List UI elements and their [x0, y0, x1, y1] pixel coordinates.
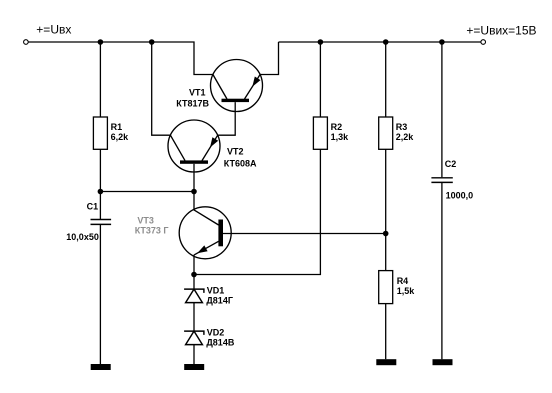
- zener diode VD2: [184, 331, 204, 345]
- wire R3 bottom: [385, 149, 387, 233]
- label R4 1,5k: [397, 276, 416, 296]
- junction top rail / VT2 collector: [149, 39, 155, 45]
- label VT2 КТ608А: [224, 147, 257, 169]
- svg-text:R2: R2: [331, 122, 343, 132]
- wire VD1 top: [193, 275, 195, 290]
- resistor R1: [93, 117, 107, 149]
- wire VT3 emitter: [193, 255, 195, 275]
- svg-text:+=Uвх: +=Uвх: [36, 23, 71, 37]
- wire R2 bottom rail: [194, 149, 320, 274]
- wire base rail: [100, 191, 194, 193]
- wire VT3 base to R3/R4: [223, 233, 386, 235]
- wire top rail right: [279, 41, 481, 43]
- svg-text:КТ608А: КТ608А: [224, 159, 257, 169]
- junction top rail / R1: [98, 39, 104, 45]
- wire VT2 base: [193, 164, 195, 192]
- resistor R4: [379, 271, 393, 304]
- svg-text:VD2: VD2: [207, 327, 225, 337]
- junction top rail / R3: [383, 39, 389, 45]
- ground C1: [91, 364, 111, 370]
- junction R3 / R4 / VT3 base: [383, 231, 389, 237]
- resistor R3: [379, 117, 393, 149]
- junction R1 / C1 / base rail: [98, 189, 104, 195]
- svg-text:2,2k: 2,2k: [396, 132, 415, 142]
- capacitor C2: [431, 178, 452, 183]
- label R1 6,2k: [111, 122, 130, 142]
- transistor VT1: [211, 60, 263, 112]
- svg-text:VT1: VT1: [189, 87, 206, 97]
- label R3 2,2k: [396, 122, 415, 142]
- svg-text:+=Uвих=15В: +=Uвих=15В: [466, 23, 536, 37]
- svg-text:C1: C1: [87, 202, 99, 212]
- transistor VT3: [179, 207, 231, 259]
- svg-text:КТ373 Г: КТ373 Г: [135, 226, 169, 236]
- label VT3 КТ373 Г: [135, 216, 169, 236]
- wire R3 top: [385, 42, 387, 117]
- junction VD1 / R2 bottom: [191, 272, 197, 278]
- wire VT1 emitter to top rail: [260, 42, 278, 75]
- ground C2: [433, 359, 453, 365]
- svg-text:Д814Г: Д814Г: [206, 296, 233, 306]
- wire C1 top: [99, 192, 101, 220]
- svg-text:Д814В: Д814В: [206, 338, 234, 348]
- zener diode VD1: [184, 289, 204, 303]
- svg-text:1000,0: 1000,0: [446, 191, 474, 201]
- svg-text:VD1: VD1: [207, 285, 225, 295]
- svg-text:R3: R3: [396, 122, 408, 132]
- svg-text:VT2: VT2: [227, 147, 244, 157]
- ground R4: [376, 359, 396, 365]
- junction VT2 base / VT3 collector: [191, 189, 197, 195]
- wire R1 top: [99, 42, 101, 117]
- label VD1 Д814Г: [206, 285, 233, 305]
- label VT1 КТ817В: [176, 87, 209, 108]
- svg-text:R4: R4: [397, 276, 409, 286]
- label VD2 Д814В: [206, 327, 234, 347]
- ground VD2: [184, 364, 204, 370]
- wire VD1 to VD2: [193, 303, 195, 332]
- wire R4 top: [385, 234, 387, 271]
- svg-text:R1: R1: [111, 122, 123, 132]
- wire C2 top: [441, 42, 443, 177]
- wire VT3 collector: [193, 192, 195, 211]
- svg-text:10,0x50: 10,0x50: [66, 232, 99, 242]
- output terminal: [481, 40, 486, 45]
- capacitor C1: [91, 220, 112, 225]
- svg-text:VT3: VT3: [137, 216, 154, 226]
- wire top rail left: [28, 42, 213, 75]
- junction top rail / C2: [439, 39, 445, 45]
- wire C1 bottom: [99, 225, 101, 364]
- wire R4 bottom: [385, 304, 387, 360]
- label R2 1,3k: [331, 122, 350, 142]
- svg-text:1,3k: 1,3k: [331, 132, 350, 142]
- svg-text:1,5k: 1,5k: [397, 286, 416, 296]
- svg-text:C2: C2: [445, 159, 457, 169]
- wire R2 top: [319, 42, 321, 117]
- wire VT2 emitter to VT1 base: [218, 102, 236, 135]
- wire VT2 collector feed: [152, 42, 171, 135]
- junction top rail / R2: [318, 39, 324, 45]
- wire C2 bottom: [441, 183, 443, 359]
- svg-text:КТ817В: КТ817В: [176, 99, 209, 109]
- wire VD2 to ground: [193, 345, 195, 364]
- input terminal: [24, 40, 29, 45]
- resistor R2: [313, 117, 327, 149]
- transistor VT2: [168, 120, 220, 172]
- svg-text:6,2k: 6,2k: [111, 132, 130, 142]
- wire R1 bottom: [99, 149, 101, 191]
